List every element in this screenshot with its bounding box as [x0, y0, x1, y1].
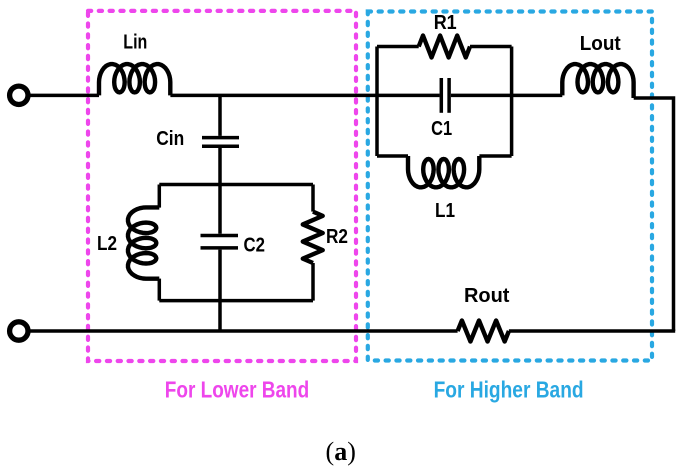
wire: bottom-left terminal to Rout	[30, 329, 457, 333]
wire: Lin to C1 left plate (through node A and box edge)	[170, 94, 439, 98]
svg-text:(a): (a)	[326, 437, 356, 466]
svg-text:L2: L2	[97, 233, 117, 255]
svg-text:For Higher Band: For Higher Band	[434, 376, 584, 402]
dashed box: For Lower Band region	[88, 11, 356, 361]
wire: tank right leg upper stub	[311, 185, 315, 212]
svg-text:C2: C2	[243, 234, 265, 256]
resistor R1	[419, 36, 470, 58]
svg-text:Lin: Lin	[123, 31, 147, 53]
svg-text:Lout: Lout	[580, 33, 621, 55]
resistor R2	[303, 212, 323, 263]
capacitor Cin top plate	[202, 136, 239, 140]
wire: Lout to top-right corner, down right side	[634, 98, 674, 331]
capacitor C1 right plate	[447, 78, 451, 113]
dashed box: For Higher Band region	[368, 12, 652, 361]
wire: tank left leg upper stub	[158, 185, 162, 208]
capacitor C2 bottom plate	[201, 246, 239, 250]
input terminal (bottom left port)	[10, 322, 28, 340]
wire: C2 down to bottom wire	[218, 250, 222, 331]
inductor L2	[128, 207, 159, 278]
svg-text:R2: R2	[326, 226, 348, 248]
svg-text:Cin: Cin	[156, 128, 184, 150]
inductor Lin	[99, 64, 170, 95]
wire: Rout to bottom-right corner	[509, 329, 675, 333]
svg-text:R1: R1	[434, 12, 457, 34]
wire: lower tank top rail	[159, 183, 313, 187]
capacitor Cin bottom plate	[202, 145, 239, 149]
wire: top-left terminal to Lin	[30, 94, 99, 98]
wire: upper box bottom edge right of L1	[479, 154, 511, 158]
wire: upper tank box right edge	[510, 47, 514, 157]
wire: Cin to C2 through tank top rail	[218, 148, 222, 234]
wire: upper box top edge left of R1	[377, 45, 419, 49]
wire: tank right leg lower stub	[311, 263, 315, 301]
wire: upper tank box left edge	[375, 47, 379, 157]
wire: center vertical from node A down to Cin	[218, 95, 222, 135]
wire: upper box bottom edge left of L1	[377, 154, 408, 158]
wire: upper box top edge right of R1	[470, 45, 512, 49]
inductor L1	[408, 156, 479, 187]
svg-text:Rout: Rout	[464, 285, 510, 307]
capacitor C1 left plate	[440, 78, 444, 113]
svg-text:L1: L1	[435, 200, 455, 222]
input terminal (top left port)	[10, 86, 28, 104]
wire: lower tank bottom rail	[159, 299, 313, 303]
resistor Rout	[458, 321, 509, 342]
svg-text:For Lower Band: For Lower Band	[165, 377, 310, 403]
wire: tank left leg lower stub	[158, 279, 162, 301]
svg-text:C1: C1	[431, 118, 452, 140]
inductor Lout	[562, 64, 633, 98]
wire: C1 right plate to Lout	[451, 94, 562, 98]
capacitor C2 top plate	[201, 234, 239, 238]
